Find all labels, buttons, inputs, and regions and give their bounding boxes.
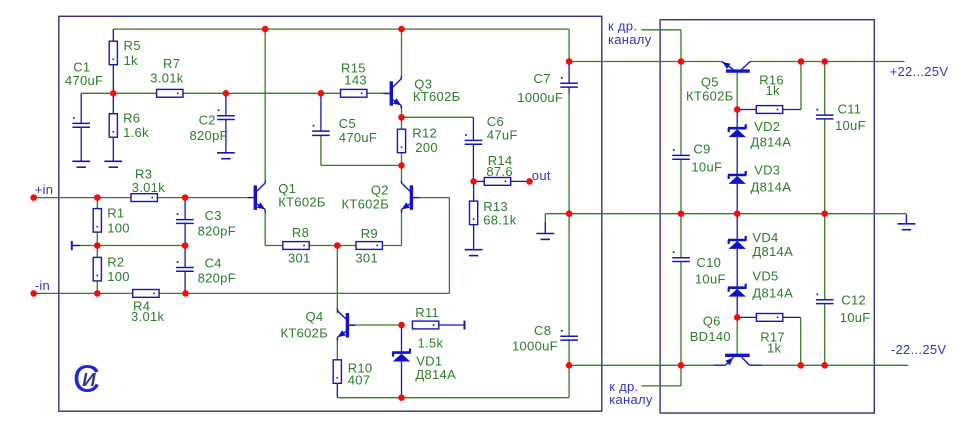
label R3 [135, 167, 152, 182]
wire C6 top lead [472, 117, 474, 140]
svg-text:301: 301 [288, 251, 311, 266]
svg-text:C9: C9 [693, 141, 710, 156]
capacitor C4 [176, 261, 194, 271]
label R11 [415, 305, 439, 320]
value C4 [198, 270, 236, 285]
label to other channel bottom line1 [609, 379, 638, 394]
wire zener chain VD2-VD3 [736, 110, 738, 214]
svg-text:R8: R8 [292, 225, 309, 240]
wire common tap row [73, 245, 186, 247]
wire node to R6 [112, 93, 114, 113]
label C9 [693, 141, 710, 156]
node top rail Q1 [262, 26, 269, 33]
wire C8 column [568, 214, 570, 366]
wire C5 top lead [320, 93, 322, 131]
label -22...25V [891, 342, 946, 357]
capacitor C6 [465, 134, 483, 144]
wire C7 bottom column [568, 94, 570, 214]
node mid rail C9 [678, 210, 685, 217]
power filter block border [660, 20, 874, 413]
svg-text:R7: R7 [163, 56, 180, 71]
transistor Q6 [713, 355, 761, 365]
wire -in row [34, 292, 450, 294]
svg-text:301: 301 [355, 251, 378, 266]
svg-text:КТ602Б: КТ602Б [413, 89, 461, 104]
zener diode VD3 [728, 171, 747, 184]
label R6 [123, 110, 140, 125]
label to other channel bottom line2 [609, 392, 653, 407]
svg-text:R1: R1 [107, 206, 124, 221]
wire bottom rail left segment [569, 364, 713, 366]
svg-text:1k: 1k [124, 53, 139, 68]
svg-text:10uF: 10uF [835, 118, 866, 133]
value R13 [483, 213, 517, 228]
svg-text:1k: 1k [766, 83, 781, 98]
wire positive rail left segment [569, 61, 722, 63]
ground under R6 [104, 161, 122, 167]
svg-text:КТ602Б: КТ602Б [342, 196, 390, 211]
svg-text:820pF: 820pF [198, 223, 236, 238]
value C5 [339, 130, 377, 145]
transistor Q5 [722, 62, 750, 72]
type Q1 [278, 195, 326, 210]
svg-text:VD5: VD5 [752, 269, 778, 284]
svg-text:BD140: BD140 [690, 329, 731, 344]
svg-text:10uF: 10uF [691, 159, 722, 174]
svg-text:+in: +in [35, 182, 54, 197]
svg-text:C5: C5 [339, 116, 356, 131]
svg-text:Д814А: Д814А [752, 286, 793, 301]
svg-text:820pF: 820pF [190, 128, 228, 143]
svg-text:Д814А: Д814А [415, 367, 456, 382]
label C3 [205, 208, 222, 223]
zener diode VD5 [728, 284, 747, 297]
value R5 [124, 53, 139, 68]
svg-text:470uF: 470uF [65, 73, 103, 88]
svg-text:R2: R2 [107, 254, 124, 269]
wire R2 leads [96, 246, 98, 294]
node -in [30, 290, 37, 297]
svg-text:R12: R12 [412, 126, 437, 141]
ground under C2 [217, 153, 235, 159]
logo Si [73, 358, 101, 400]
svg-text:-22...25V: -22...25V [891, 342, 946, 357]
label out [532, 168, 551, 183]
value R17 [767, 340, 782, 355]
label to other channel top line1 [608, 19, 637, 34]
wire Q6 base column [736, 317, 738, 353]
svg-text:VD2: VD2 [754, 119, 780, 134]
svg-text:68.1k: 68.1k [483, 213, 517, 228]
type VD4 [752, 244, 793, 259]
node common R1-R2 [94, 242, 101, 249]
node R16 rail [798, 58, 805, 65]
resistor R5 [109, 41, 117, 64]
label R16 [759, 73, 784, 88]
ground mid rail left [536, 222, 554, 239]
wire C11 column [824, 62, 826, 214]
wire Q4 emitter to R10 [336, 337, 338, 360]
value C6 [487, 128, 518, 143]
label R1 [107, 206, 124, 221]
resistor R15 [341, 89, 367, 97]
svg-text:200: 200 [415, 140, 438, 155]
node C2 top [223, 90, 230, 97]
svg-text:100: 100 [107, 269, 130, 284]
svg-text:C4: C4 [205, 256, 222, 271]
svg-text:Q6: Q6 [703, 314, 721, 329]
value R1 [107, 220, 130, 235]
svg-text:1000uF: 1000uF [517, 90, 563, 105]
wire C1 branch [80, 93, 82, 123]
label R5 [124, 38, 141, 53]
node bottom rail C8 [566, 362, 573, 369]
svg-text:1000uF: 1000uF [512, 338, 558, 353]
node R2 bottom [94, 290, 101, 297]
wire C2 top lead [225, 93, 227, 115]
svg-text:C11: C11 [838, 102, 862, 117]
svg-text:каналу: каналу [609, 392, 653, 407]
capacitor C10 [672, 251, 690, 261]
wire R16 leads [737, 109, 801, 111]
svg-text:C7: C7 [534, 71, 551, 86]
svg-text:И: И [82, 369, 96, 390]
wire Q3 emitter node to C6 [402, 116, 474, 118]
capacitor C12 [816, 294, 834, 304]
node mid rail C7 [566, 210, 573, 217]
label C10 [696, 255, 721, 270]
label R8 [292, 225, 309, 240]
wire bottom row [337, 365, 569, 397]
label -in [35, 278, 50, 293]
resistor R10 [333, 360, 341, 384]
wire R12 bottom to Q2 collector [401, 153, 403, 183]
resistor R13 [470, 201, 478, 225]
svg-text:1k: 1k [767, 340, 782, 355]
label C4 [205, 256, 222, 271]
label VD1 [416, 354, 442, 369]
value C10 [695, 272, 726, 287]
node C11 top [821, 58, 828, 65]
transistor Q3 [383, 77, 401, 109]
node C5 top [318, 90, 325, 97]
wire C2 to ground [225, 120, 227, 153]
wire R14 leads [473, 180, 529, 182]
label C2 [199, 113, 216, 128]
label C6 [487, 114, 504, 129]
resistor R7 [157, 89, 183, 97]
transistor Q1 [247, 181, 265, 213]
capacitor C5 [312, 125, 330, 136]
label R7 [163, 56, 180, 71]
svg-text:407: 407 [348, 373, 371, 388]
transistor Q2 [402, 181, 420, 213]
resistor R9 [356, 242, 382, 250]
node C4 bottom [182, 290, 189, 297]
svg-text:КТ602Б: КТ602Б [686, 88, 734, 103]
svg-text:10uF: 10uF [695, 272, 726, 287]
svg-text:3.01k: 3.01k [150, 71, 184, 86]
value C8 [512, 338, 558, 353]
label R15 [341, 61, 366, 76]
label Q4 [306, 309, 324, 324]
wire R17 to bottom rail [800, 317, 802, 365]
value R2 [107, 269, 130, 284]
transistor Q4 [338, 308, 356, 340]
node mid rail zener [734, 210, 741, 217]
wire R1 leads [96, 198, 98, 246]
zener diode VD2 [728, 124, 747, 137]
label R13 [483, 199, 508, 214]
resistor R1 [93, 209, 101, 233]
value C2 [190, 128, 228, 143]
resistor R2 [93, 257, 101, 281]
label R14 [488, 153, 513, 168]
wire Q2 base to feedback column [413, 198, 450, 294]
svg-text:R9: R9 [361, 226, 378, 241]
node VD1 bottom [398, 394, 405, 401]
label C5 [339, 116, 356, 131]
type Q5 [686, 88, 734, 103]
value C7 [517, 90, 563, 105]
wire zener chain VD4-VD5 [736, 214, 738, 318]
resistor R11 [412, 321, 438, 329]
label R10 [348, 361, 373, 376]
node C12 bottom [821, 362, 828, 369]
svg-text:100: 100 [107, 220, 130, 235]
wire Q4 base row [349, 324, 401, 326]
label C11 [838, 102, 862, 117]
value R10 [348, 373, 371, 388]
input terminal bar common [72, 241, 80, 250]
svg-text:C12: C12 [841, 293, 866, 308]
value R14 [486, 164, 513, 179]
wire R16 to positive rail [800, 62, 802, 110]
value C12 [840, 310, 871, 325]
label C8 [534, 323, 551, 338]
svg-text:каналу: каналу [608, 32, 652, 47]
wire Q1 collector column [264, 29, 266, 183]
svg-text:C10: C10 [696, 255, 721, 270]
resistor R3 [131, 194, 157, 202]
type Q4 [281, 326, 329, 341]
wire Q3 collector column [401, 29, 403, 79]
svg-text:47uF: 47uF [487, 128, 518, 143]
resistor R12 [397, 129, 405, 153]
svg-text:3.01k: 3.01k [131, 309, 165, 324]
svg-text:1.5k: 1.5k [418, 335, 444, 350]
value R7 [150, 71, 184, 86]
svg-text:820pF: 820pF [198, 270, 236, 285]
svg-text:C8: C8 [534, 323, 551, 338]
wire C4 leads [184, 246, 186, 294]
label R17 [760, 329, 785, 344]
wire Q5 base column [736, 73, 738, 110]
svg-text:470uF: 470uF [339, 130, 377, 145]
node R5-R6-C1 [110, 90, 117, 97]
type Q6 [690, 329, 731, 344]
node R14 left [470, 178, 477, 185]
svg-text:143: 143 [344, 73, 367, 88]
capacitor C9 [672, 149, 690, 159]
label +22...25V [890, 64, 949, 79]
value R9 [355, 251, 378, 266]
zener diode VD1 [392, 349, 411, 362]
node bottom rail C10 [678, 362, 685, 369]
wire positive rail right segment [750, 61, 904, 63]
svg-text:R5: R5 [124, 38, 141, 53]
type VD1 [415, 367, 456, 382]
svg-text:Д814А: Д814А [751, 134, 792, 149]
label +in [35, 182, 54, 197]
ground mid rail right [898, 214, 916, 229]
ground under C1 [72, 161, 90, 167]
resistor R14 [484, 178, 510, 186]
svg-text:Д814А: Д814А [752, 244, 793, 259]
label to other channel top line2 [608, 32, 652, 47]
wire C9 column [680, 62, 682, 214]
wire VD1 bottom lead [401, 361, 403, 398]
node out [526, 178, 533, 185]
resistor R16 [756, 106, 782, 114]
label VD3 [754, 163, 780, 178]
value C3 [198, 223, 236, 238]
svg-text:КТ602Б: КТ602Б [281, 326, 329, 341]
type Q3 [413, 89, 461, 104]
value R6 [123, 125, 149, 140]
value R8 [288, 251, 311, 266]
svg-text:VD4: VD4 [752, 230, 778, 245]
label Q5 [701, 75, 719, 90]
svg-text:10uF: 10uF [840, 310, 871, 325]
wire R5 bottom to node [112, 65, 114, 94]
wire VD1 top lead [401, 325, 403, 352]
node R17 rail [797, 362, 804, 369]
label R2 [107, 254, 124, 269]
node Q5 base [734, 106, 741, 113]
wire C7 leads [568, 62, 570, 94]
terminal bar at R11 [464, 321, 466, 330]
capacitor C2 [217, 109, 235, 119]
value C9 [691, 159, 722, 174]
svg-text:C2: C2 [199, 113, 216, 128]
resistor R6 [109, 114, 117, 138]
svg-text:R11: R11 [415, 305, 439, 320]
wire top rail [113, 29, 569, 61]
amplifier block border [59, 16, 602, 411]
svg-text:out: out [532, 168, 551, 183]
wire mid rail left ground stem [544, 214, 546, 222]
capacitor C8 [560, 330, 578, 340]
wire C1 to ground [80, 127, 82, 161]
svg-text:Q4: Q4 [306, 309, 324, 324]
wire C10 column [680, 214, 682, 366]
type VD5 [752, 286, 793, 301]
wire node row R7-R15 [81, 92, 390, 94]
value R4 [131, 309, 165, 324]
svg-text:1.6k: 1.6k [123, 125, 149, 140]
wire diff pair tail to Q4 [336, 246, 338, 314]
value R16 [766, 83, 781, 98]
wire Q3 emitter node to R12 [401, 105, 403, 129]
ground under R13 [465, 250, 483, 256]
label R9 [361, 226, 378, 241]
label C7 [534, 71, 551, 86]
label R12 [412, 126, 437, 141]
wire R5 top lead [112, 29, 114, 41]
wire R13 top lead [473, 181, 475, 201]
node C3 top [182, 194, 189, 201]
capacitor C7 [560, 77, 578, 87]
wire R6 to ground [112, 137, 114, 161]
wire R10 bottom to bottom row [336, 383, 338, 397]
node top rail Q3 [398, 26, 405, 33]
label Q2 [371, 183, 389, 198]
wire C3 leads [184, 198, 186, 246]
wire R13 to ground [473, 225, 475, 250]
wire to other channel bottom stub [641, 365, 681, 386]
label C1 [73, 59, 90, 74]
node +in [30, 194, 37, 201]
node C9 top [678, 58, 685, 65]
svg-text:-in: -in [35, 278, 50, 293]
wire R17 leads [737, 316, 801, 318]
svg-text:+22...25V: +22...25V [890, 64, 949, 79]
node R1 top [94, 194, 101, 201]
zener diode VD4 [728, 236, 747, 249]
svg-text:R6: R6 [123, 110, 140, 125]
resistor R8 [283, 242, 309, 250]
wire C6 bottom to R14 node [472, 144, 474, 181]
node R12 bottom [398, 162, 405, 169]
type VD3 [751, 180, 792, 195]
node C3-C4 [182, 242, 189, 249]
svg-text:VD3: VD3 [754, 163, 780, 178]
node Q4 base [398, 322, 405, 329]
node R8-R9 [334, 242, 341, 249]
wire C12 column [824, 214, 826, 366]
type VD2 [751, 134, 792, 149]
wire C5 bottom to R12 node [321, 135, 402, 165]
node Q3 emitter [398, 114, 405, 121]
value R12 [415, 140, 438, 155]
svg-text:КТ602Б: КТ602Б [278, 195, 326, 210]
value C1 [65, 73, 103, 88]
value C11 [835, 118, 866, 133]
capacitor C11 [816, 109, 834, 119]
label Q1 [278, 181, 296, 196]
wire +in row [34, 197, 248, 199]
value R15 [344, 73, 367, 88]
label VD2 [754, 119, 780, 134]
label VD5 [752, 269, 778, 284]
type Q2 [342, 196, 390, 211]
node mid rail C11 [821, 210, 828, 217]
label VD4 [752, 230, 778, 245]
resistor R4 [133, 290, 159, 298]
capacitor C3 [176, 213, 194, 223]
label Q6 [703, 314, 721, 329]
value R3 [132, 180, 166, 195]
wire Q1 emitter to R8 row [265, 210, 283, 246]
svg-text:87.6: 87.6 [486, 164, 513, 179]
label C12 [841, 293, 866, 308]
label Q3 [414, 76, 432, 91]
wire R11 leads [439, 324, 464, 326]
svg-text:3.01k: 3.01k [132, 180, 166, 195]
wire bottom rail right segment [762, 364, 908, 366]
value R11 [418, 335, 444, 350]
